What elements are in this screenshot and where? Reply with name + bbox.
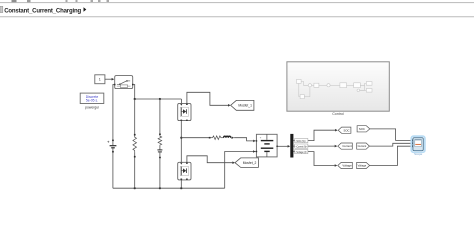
control subsystem box (287, 62, 389, 111)
from tag Current (357, 143, 370, 149)
svg-text:Current: Current (358, 144, 367, 148)
wire constant to breaker (105, 78, 114, 81)
svg-text:1: 1 (99, 78, 101, 82)
svg-text:Voltage: Voltage (342, 164, 352, 168)
svg-text:Voltage: Voltage (358, 164, 367, 168)
scope selection glow (411, 136, 425, 152)
mosfet Q2 block (178, 162, 191, 180)
resistor branch R1 (133, 99, 137, 188)
series RC branch (157, 99, 162, 188)
battery minus wire (225, 150, 256, 188)
control subsystem preview contents (297, 79, 373, 98)
from tag SOC (357, 126, 370, 132)
series RL branch (181, 136, 234, 140)
scope block (413, 138, 423, 151)
wire breaker left terminal down (113, 85, 114, 141)
goto tag Mosfet_2 (235, 158, 258, 168)
junction node-R (134, 98, 136, 100)
wire Current to goto (293, 145, 337, 148)
constant block (95, 75, 105, 84)
breadcrumb arrow (84, 7, 87, 12)
wire from-Voltage to scope (370, 145, 413, 165)
control subsystem label (332, 112, 344, 116)
mosfet Q2 m wire to goto (187, 156, 235, 164)
goto tag Mosfet_1 (231, 100, 254, 110)
bus selector (290, 134, 293, 158)
svg-text:Control: Control (332, 112, 344, 116)
powergui block (80, 93, 104, 103)
svg-text:powergui: powergui (85, 105, 99, 109)
svg-text:SOC: SOC (343, 128, 349, 132)
junction node-RC (159, 98, 161, 100)
svg-text:SOC: SOC (359, 127, 365, 131)
breadcrumb model icon (0, 6, 3, 12)
signal label Voltage (295, 150, 308, 154)
mosfet Q1 block (178, 103, 191, 121)
wire RL to battery plus (234, 138, 256, 143)
svg-text:<Voltage (V)>: <Voltage (V)> (296, 150, 308, 154)
scope label (414, 152, 423, 156)
DC voltage source (107, 140, 116, 153)
goto tag Current (338, 143, 353, 149)
breaker block (114, 76, 134, 89)
powergui label (85, 105, 99, 109)
goto tag Voltage (338, 162, 353, 168)
battery m wire to bus selector (278, 145, 290, 148)
toolbar button bottoms (top strip) (12, 0, 110, 2)
wire from-SOC to scope (370, 129, 413, 141)
breadcrumb bottom separator (0, 15, 474, 18)
signal label Current (295, 144, 308, 148)
wire SOC to goto (293, 129, 337, 141)
breadcrumb title Constant_Current_Charging (4, 8, 81, 14)
wire DC source to ground bus (112, 153, 114, 189)
svg-text:Scope: Scope (414, 152, 423, 156)
signal label SOC (295, 139, 308, 143)
from tag Voltage (357, 162, 370, 168)
svg-text:Current: Current (342, 144, 352, 148)
svg-text:<Current (A)>: <Current (A)> (296, 144, 308, 148)
junction bus-R (134, 187, 136, 189)
wire mosfet2 source to bus (180, 180, 182, 188)
battery block (256, 134, 278, 157)
bottom bus wire (113, 187, 225, 189)
svg-text:5e-05 s.: 5e-05 s. (86, 99, 98, 103)
svg-text:Constant_Current_Charging: Constant_Current_Charging (4, 8, 81, 14)
wire mosfet1 source to mosfet2 drain (180, 121, 182, 163)
wire Voltage to goto (293, 152, 337, 167)
wire breaker right terminal to node (134, 85, 135, 100)
junction bus-mosfet2 (180, 187, 182, 189)
junction midpoint-RL (180, 137, 182, 139)
svg-text:<SOC (%)>: <SOC (%)> (296, 139, 307, 143)
svg-text:Mosfet_1: Mosfet_1 (238, 104, 252, 108)
svg-text:Mosfet_2: Mosfet_2 (243, 161, 257, 165)
junction bus-RC (159, 187, 161, 189)
toolbar bottom edge line (0, 1, 474, 4)
goto tag SOC (338, 127, 351, 133)
mosfet Q1 m wire to goto (187, 92, 231, 106)
node wire top (135, 99, 182, 103)
wire from-Current to scope (369, 142, 413, 146)
